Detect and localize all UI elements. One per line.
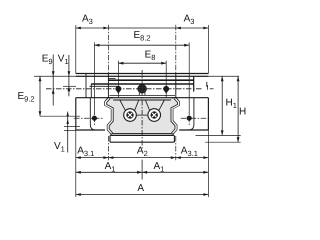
svg-text:H: H	[239, 106, 246, 117]
svg-text:A: A	[137, 183, 144, 194]
